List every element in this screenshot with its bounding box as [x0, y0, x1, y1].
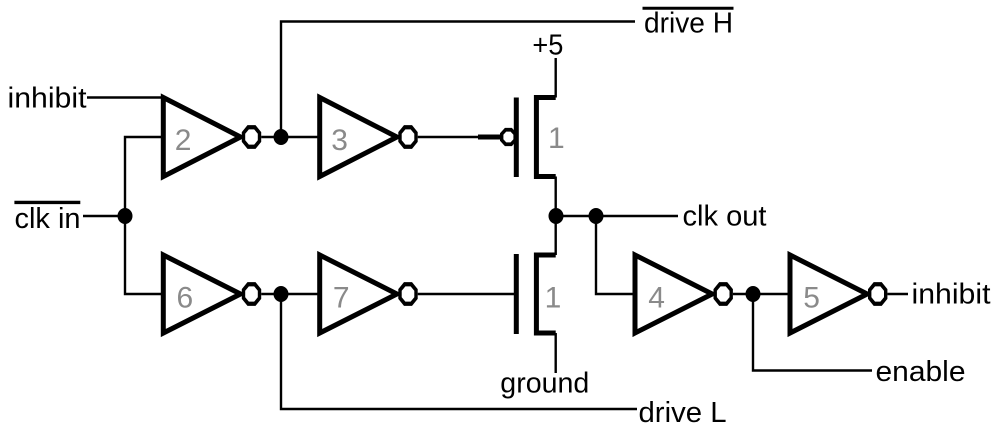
inverter 4 (triangle) [635, 255, 712, 333]
svg-text:inhibit: inhibit [912, 279, 991, 311]
wire: node 2 down to inverter 4 input [596, 216, 635, 294]
inverter 5 output bubble [870, 284, 886, 304]
svg-text:inhibit: inhibit [8, 83, 87, 115]
svg-text:5: 5 [803, 282, 820, 315]
inverter 6 output bubble [244, 284, 260, 304]
svg-text:clk out: clk out [683, 201, 767, 233]
svg-text:6: 6 [177, 282, 194, 315]
inverter 6 (triangle) [163, 255, 240, 333]
wire: node down and right to enable [753, 294, 872, 371]
node: drive L tap after inverter 6 [274, 286, 289, 302]
wire: inverter 6 output to inverter 7 input [261, 293, 320, 295]
inverter 2 output bubble [244, 127, 260, 147]
wire: PMOS drain down to output node [555, 177, 557, 217]
svg-text:ground: ground [500, 368, 589, 400]
inverter 4 output bubble [715, 284, 731, 304]
transistor 1 (NMOS) gate plate [514, 254, 519, 334]
wire: junction up to inverter 2 input [125, 137, 163, 216]
wire: +5 to PMOS source [555, 58, 557, 98]
wire: output row to clk out [556, 215, 678, 217]
svg-text:drive H: drive H [644, 8, 733, 40]
wire: junction down to inverter 6 input [125, 216, 163, 294]
wire: output node down to NMOS drain [555, 216, 557, 255]
wire: node down and right to drive L [281, 294, 637, 409]
node: output node 1 [549, 208, 564, 224]
node: clk in junction [118, 208, 133, 224]
wire: inverter 4 output to inverter 5 input [733, 293, 790, 295]
svg-text:enable: enable [876, 356, 966, 388]
svg-text:2: 2 [175, 124, 192, 157]
wire: clk in to junction [83, 215, 125, 217]
wire: inverter 2 output to inverter 3 input [261, 136, 320, 138]
wire: inverter 3 output to PMOS gate [418, 136, 478, 138]
svg-text:1: 1 [545, 282, 562, 315]
svg-text:7: 7 [333, 282, 350, 315]
wire: inverter 5 output to inhibit label [887, 293, 908, 295]
svg-text:drive L: drive L [639, 397, 727, 428]
overline of clk in [14, 201, 80, 204]
PMOS thick gate lead [478, 135, 500, 140]
inverter 3 (triangle) [320, 98, 397, 177]
inverter 5 (triangle) [790, 255, 867, 333]
svg-text:4: 4 [648, 282, 665, 315]
PMOS gate bubble [502, 130, 515, 145]
node: enable tap after inverter 4 [746, 286, 761, 302]
overline of drive H [643, 7, 734, 10]
transistor 1 (NMOS) channel bracket [536, 255, 555, 333]
inverter 2 (triangle) [163, 98, 240, 177]
inverter 3 output bubble [400, 127, 416, 147]
wire: node up and right to drive H [281, 22, 635, 138]
wire: inhibit input to inverter 2 top corner [87, 96, 163, 98]
transistor 1 (PMOS) gate plate [514, 98, 519, 178]
svg-text:+5: +5 [532, 30, 563, 62]
svg-text:clk in: clk in [15, 203, 81, 235]
transistor 1 (PMOS) channel bracket [536, 98, 555, 177]
node: drive H tap after inverter 2 [274, 129, 289, 145]
svg-text:1: 1 [548, 122, 565, 155]
wire: NMOS source down to ground [555, 333, 557, 373]
node: output node 2 [589, 208, 604, 224]
inverter 7 (triangle) [320, 255, 397, 333]
inverter 7 output bubble [400, 284, 416, 304]
wire: inverter 7 output to NMOS gate [418, 293, 514, 295]
svg-text:3: 3 [331, 124, 348, 157]
